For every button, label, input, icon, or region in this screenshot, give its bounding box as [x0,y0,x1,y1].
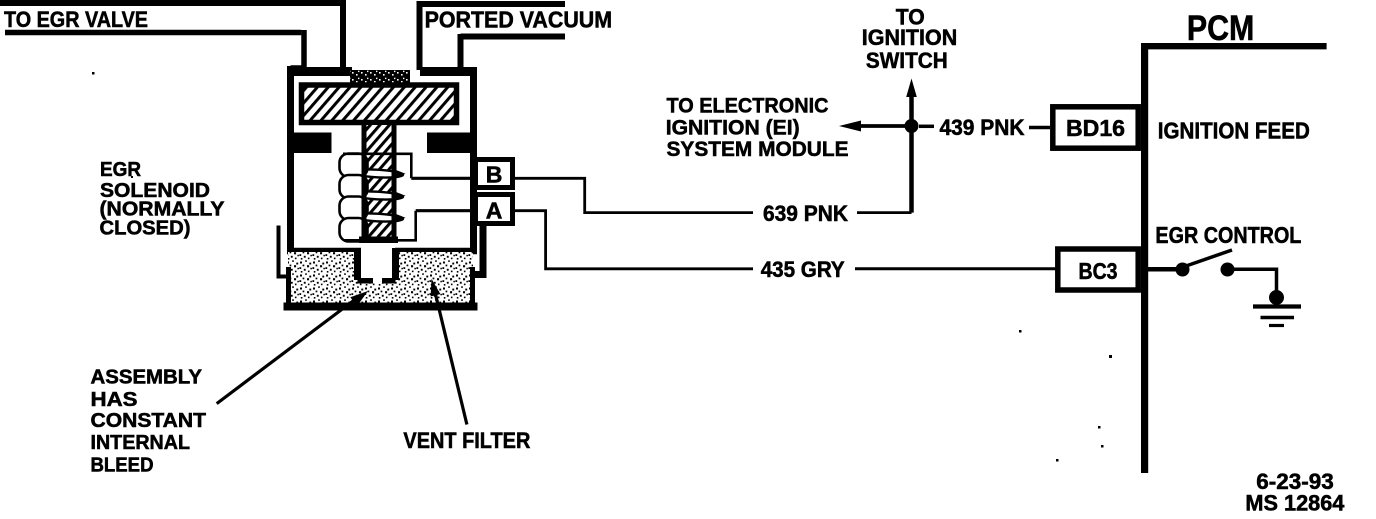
svg-text:BD16: BD16 [1066,115,1125,141]
svg-text:EGR CONTROL: EGR CONTROL [1155,222,1301,248]
shaft bottom cap [359,237,398,244]
coil connector loop 3 [351,212,403,222]
switch contact dot 2 [1221,263,1235,277]
tray left border [286,267,291,303]
body bottom plate left [287,248,361,255]
armature plate (hatched) [302,85,457,123]
svg-text:IGNITION: IGNITION [862,25,957,50]
svg-text:435 GRY: 435 GRY [761,257,845,282]
coil loop A [340,154,368,178]
solenoid body top edge left [287,67,352,76]
svg-text:SYSTEM MODULE: SYSTEM MODULE [667,137,849,161]
svg-text:HAS: HAS [91,388,138,411]
svg-text:INTERNAL: INTERNAL [91,431,191,454]
wire 639 PNK to junction [857,211,912,214]
notch right wall [392,248,399,280]
scan noise specks [92,72,95,75]
tray right border [470,267,475,303]
coil frame bottom wire [344,211,416,241]
wire PCM to switch [1148,267,1176,272]
svg-text:639 PNK: 639 PNK [763,201,848,226]
body bottom plate right [395,248,477,255]
pipe ported vacuum (top line) [417,1,566,70]
ground junction dot [1269,290,1284,305]
svg-text:CONSTANT: CONSTANT [91,409,207,432]
leader arrow: vent filter [434,288,467,425]
left flange hook [279,226,288,277]
coil loop D [340,218,368,242]
shaft notch white area [361,247,392,283]
shaft left border [362,125,367,242]
terminal wire B inside body [411,177,475,180]
arrow left (to EI module) [860,124,912,128]
connector box BC3 [1058,249,1138,290]
svg-text:MS 12864: MS 12864 [1245,491,1344,515]
leader arrow: assembly bleed [217,298,357,404]
vent filter (stippled) [288,252,473,304]
pipe to EGR valve (bottom line) [5,30,304,68]
coil frame top wire [343,154,411,179]
terminal box A [476,195,513,224]
coil tip 1 [396,170,406,178]
notch left wall [354,248,361,280]
ground symbol [1253,304,1301,308]
solenoid body right wall [457,67,474,249]
svg-text:EGR: EGR [100,159,142,181]
PCM boundary vertical line [1141,43,1148,473]
svg-text:VENT FILTER: VENT FILTER [403,428,530,453]
svg-text:IGNITION (EI): IGNITION (EI) [666,115,800,139]
terminal box B [476,160,513,188]
switch contact dot 1 [1176,263,1190,277]
shaft right border [392,125,397,242]
pipe to EGR valve (top line) [0,0,343,68]
right black block [427,133,470,154]
switch blade [1186,250,1232,266]
right flange hook / bar below terminals [471,226,483,275]
coil tip 3 [396,214,406,222]
PCM top line [1141,43,1327,49]
left black block [290,133,332,154]
svg-text:PORTED VACUUM: PORTED VACUUM [425,6,612,32]
solenoid body top edge right [420,67,477,76]
svg-text:IGNITION FEED: IGNITION FEED [1158,118,1310,144]
coil loop B [340,175,368,199]
svg-text:SWITCH: SWITCH [866,48,948,73]
coil connector loop 2 [351,190,403,200]
top seal (stippled) [350,70,410,85]
svg-text:PCM: PCM [1187,9,1255,48]
svg-text:ASSEMBLY: ASSEMBLY [91,366,203,389]
svg-text:CLOSED): CLOSED) [100,218,191,240]
svg-text:BC3: BC3 [1079,258,1118,284]
solenoid body left wall [291,66,307,249]
svg-text:BLEED: BLEED [91,454,154,477]
terminal wire A inside body [416,209,475,212]
pipe ported vacuum (bottom line) [461,34,566,69]
svg-text:A: A [486,198,503,224]
connector box BD16 [1053,107,1138,148]
coil tip 2 [396,192,406,200]
svg-text:TO ELECTRONIC: TO ELECTRONIC [667,93,829,117]
plunger shaft (hatched) [367,125,392,237]
junction dot [905,119,919,133]
svg-text:B: B [486,162,503,188]
notch bottom stubs (bleed gap) [358,278,396,284]
coil connector loop 1 [351,168,403,178]
wire 439 PNK [919,125,934,129]
coil loop C [340,197,368,221]
arrowhead up (to ignition switch) [906,79,917,98]
riser to ignition switch [909,97,914,213]
svg-text:439 PNK: 439 PNK [940,115,1025,140]
svg-text:TO EGR VALVE: TO EGR VALVE [4,7,148,32]
tray bottom bar [284,303,478,311]
wire B to 639 PNK [515,178,753,212]
wire A to 435 GRY [515,211,753,269]
wire switch to ground [1234,269,1277,291]
wire 435 GRY to BC3 [855,267,1056,270]
